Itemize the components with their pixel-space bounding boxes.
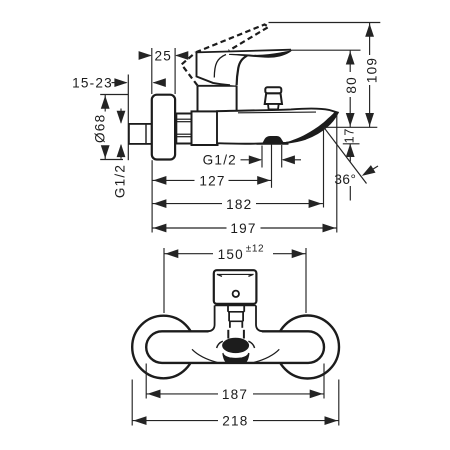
dimension 197 <box>152 221 337 237</box>
dimension 25 extension lines <box>152 48 175 94</box>
dimension 15-23 (wall to escutcheon) <box>72 76 166 91</box>
aerator (side view) <box>262 136 285 144</box>
body top chamfer line <box>238 111 316 114</box>
spout outlet (front view) <box>222 338 249 353</box>
diverter knob <box>265 87 282 109</box>
reference line spout bottom <box>324 126 378 128</box>
svg-text:25: 25 <box>155 49 173 64</box>
svg-text:109: 109 <box>365 57 380 83</box>
lever neck (front view) <box>228 306 244 339</box>
svg-text:36°: 36° <box>334 172 356 187</box>
svg-text:Ø68: Ø68 <box>93 114 108 143</box>
lever raised position (dashed) <box>182 25 269 86</box>
svg-text:187: 187 <box>222 387 248 402</box>
lever handle (front view) <box>214 270 257 304</box>
reference line escutcheon <box>151 160 153 232</box>
extension line spout heel <box>323 129 325 208</box>
dimension G1/2 (shower outlet) <box>203 145 301 168</box>
spout side edges (front view) <box>217 341 223 348</box>
union nut <box>176 114 191 144</box>
dimension 218 <box>132 413 339 429</box>
lever set screw hole <box>233 291 239 297</box>
lever handle (solid) <box>197 50 292 86</box>
escutcheon (side view) <box>152 95 175 160</box>
svg-text:15-23: 15-23 <box>72 76 113 91</box>
svg-text:G1/2: G1/2 <box>203 153 237 168</box>
extension lines 218 <box>132 380 339 426</box>
dimension Ø68 (escutcheon diameter) <box>93 95 110 160</box>
dimension 36° (spout angle) <box>324 127 378 200</box>
svg-text:80: 80 <box>344 76 359 94</box>
dimension 25 (escutcheon depth) <box>139 49 189 64</box>
left wall escutcheon (front view) <box>132 316 195 379</box>
spout escutcheon flare <box>208 326 263 333</box>
extension line top (raised lever) <box>269 22 381 24</box>
svg-text:218: 218 <box>222 414 248 429</box>
mixer body and spout (side view) <box>217 109 338 144</box>
extension line spout tip <box>336 115 338 233</box>
cartridge housing <box>198 86 237 112</box>
svg-text:150: 150 <box>218 247 244 262</box>
spout underside shading <box>286 112 338 143</box>
lever flange line <box>215 305 256 307</box>
dimension G1/2 (inlet thread) <box>112 109 127 199</box>
body contour lines <box>192 349 217 362</box>
svg-text:182: 182 <box>226 197 252 212</box>
extension line lever top <box>289 49 361 51</box>
body boss <box>192 111 218 145</box>
outlet centerline <box>271 144 273 188</box>
dimension 182 <box>152 196 323 212</box>
aerator ring (front view) <box>222 352 249 364</box>
threaded nipple (wall connection) <box>129 124 152 144</box>
lever top edge and tail <box>196 50 291 53</box>
extension lines 187 <box>146 364 324 399</box>
dimension 127 <box>152 173 271 189</box>
dimension 187 <box>146 386 324 402</box>
dimension 150±12 (connection centers) <box>164 243 306 262</box>
svg-text:17: 17 <box>342 128 356 144</box>
svg-text:±12: ±12 <box>246 243 264 254</box>
dimension 109 <box>365 23 380 128</box>
dimension Ø68 extension lines <box>100 95 128 160</box>
extension lines 150±12 <box>164 248 306 313</box>
lever sculpt line <box>214 55 226 78</box>
svg-text:127: 127 <box>199 174 225 189</box>
wall plane line <box>127 75 129 161</box>
svg-text:G1/2: G1/2 <box>112 164 127 198</box>
dimension 80 <box>344 50 359 127</box>
mixer body (front view capsule) <box>146 331 324 363</box>
right wall escutcheon (front view) <box>276 316 339 379</box>
svg-text:197: 197 <box>230 221 256 236</box>
dimension 17 <box>342 128 359 157</box>
